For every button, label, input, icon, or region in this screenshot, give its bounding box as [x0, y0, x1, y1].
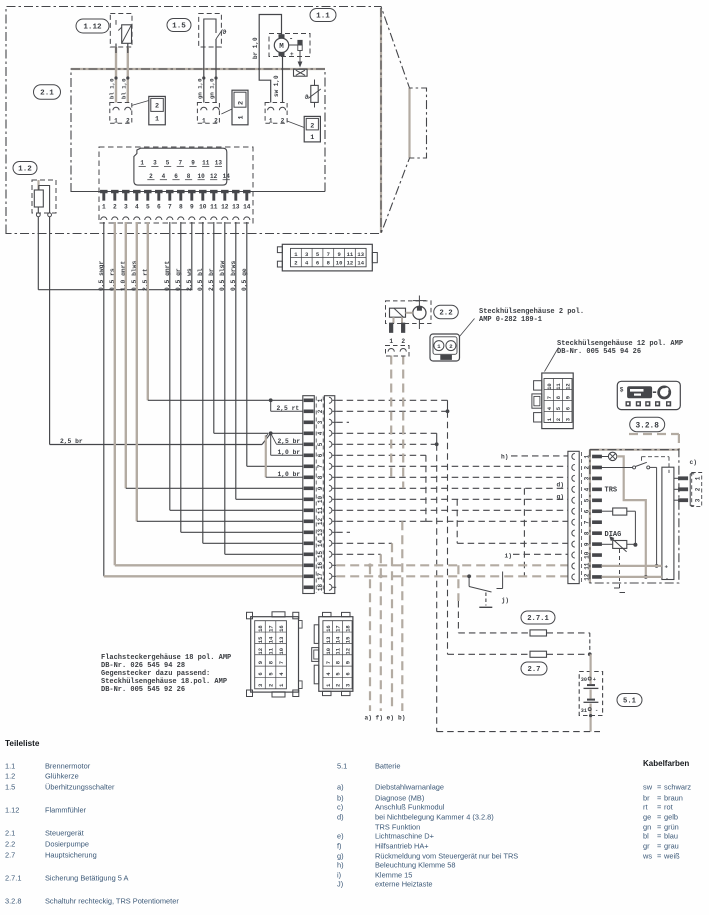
svg-text:2: 2: [694, 487, 701, 491]
dashed option box around switch: [642, 457, 670, 473]
c) connector bracket: [690, 473, 702, 507]
junction pot/resistor: [633, 543, 637, 547]
svg-text:Hauptsicherung: Hauptsicherung: [45, 851, 97, 860]
svg-text:+: +: [665, 564, 669, 571]
svg-text:12: 12: [347, 260, 354, 267]
svg-text:Steuergerät: Steuergerät: [45, 829, 84, 838]
junction pin4/pin5 ground: [435, 442, 439, 446]
svg-text:14: 14: [335, 636, 342, 643]
14-pol cell numbers: [291, 248, 367, 266]
net row 18pin-9 with d) branch: [336, 487, 568, 489]
svg-text:11: 11: [555, 383, 562, 390]
motor brush feed arrow to fuse: [299, 51, 301, 63]
wire from 14-pin pin 9 (2,5 ws): [191, 222, 193, 290]
svg-text:11: 11: [335, 647, 342, 654]
svg-text:gn 1,0: gn 1,0: [209, 78, 216, 99]
svg-text:rt: rt: [643, 803, 648, 812]
svg-text:1: 1: [269, 117, 273, 124]
svg-text:18: 18: [257, 625, 264, 632]
module pin numbers (rotated): [581, 452, 583, 583]
svg-text:Dosierpumpe: Dosierpumpe: [45, 840, 89, 849]
wire from 14-pin pin 10 (0,5 bl): [202, 222, 204, 543]
svg-text:1: 1: [202, 117, 206, 124]
svg-text:1.1: 1.1: [5, 762, 15, 771]
svg-text:12: 12: [344, 648, 351, 655]
timer 3.2.8 illustration: [617, 381, 680, 409]
svg-text:=: =: [657, 852, 661, 861]
svg-text:14: 14: [223, 173, 231, 180]
dosing pump 2.2: [386, 296, 432, 330]
svg-text:TRS Funktion: TRS Funktion: [375, 823, 420, 832]
svg-text:Steckhülsengehäuse 18.pol. AMP: Steckhülsengehäuse 18.pol. AMP: [101, 678, 227, 686]
text flat-pin housing: [101, 654, 231, 694]
label oval 1.2: [13, 162, 37, 175]
18-pol #2 cell numbers: [323, 621, 352, 689]
svg-text:h): h): [337, 861, 344, 870]
svg-text:1.12: 1.12: [83, 24, 102, 32]
label oval 5.1: [617, 694, 642, 707]
svg-text:7: 7: [278, 661, 285, 664]
svg-text:5: 5: [166, 160, 170, 167]
c) connector tabs: [674, 477, 688, 502]
svg-text:3: 3: [694, 498, 701, 502]
heater unit 1.1 outline: [6, 7, 427, 234]
label oval 1.5: [167, 19, 191, 32]
svg-text:c): c): [690, 459, 697, 466]
svg-text:12: 12: [210, 173, 218, 180]
socket contacts row: [101, 217, 250, 220]
svg-text:a): a): [365, 715, 372, 722]
svg-text:5: 5: [146, 204, 150, 211]
svg-text:9: 9: [191, 160, 195, 167]
svg-text:grau: grau: [664, 842, 679, 851]
svg-text:Flachsteckergehäuse 18 pol. AM: Flachsteckergehäuse 18 pol. AMP: [101, 654, 231, 662]
wire from glow plug terminal 1 down to pin9 rail: [37, 217, 39, 290]
svg-text:1: 1: [238, 115, 246, 119]
leader line: [460, 319, 475, 337]
svg-text:=: =: [657, 823, 661, 832]
svg-text:18: 18: [344, 625, 351, 632]
svg-text:13: 13: [325, 636, 332, 643]
svg-text:5: 5: [317, 442, 324, 446]
svg-text:9: 9: [317, 486, 324, 490]
svg-text:1: 1: [114, 117, 118, 124]
junction battery plus: [588, 652, 592, 656]
svg-text:6: 6: [565, 407, 572, 410]
18-pin connector X1 tab column: [303, 396, 315, 594]
net row 18pin-17 (gray): [336, 575, 568, 577]
svg-text:14: 14: [357, 260, 364, 267]
motor wire sw 1,0: [282, 56, 284, 103]
junction f): [379, 574, 383, 578]
svg-text:1: 1: [140, 160, 144, 167]
fuse 2.7 row: [448, 653, 531, 655]
svg-text:10: 10: [278, 648, 285, 655]
svg-text:17: 17: [268, 625, 275, 632]
svg-text:10: 10: [325, 648, 332, 655]
wire from 14-pin pin 1 (0,5 swgr): [103, 222, 105, 576]
label oval 2.7: [521, 662, 547, 675]
module plus/minus rail: [662, 467, 674, 582]
svg-text:6: 6: [344, 672, 351, 675]
svg-text:10: 10: [317, 496, 324, 504]
svg-text:Überhitzungsschalter: Überhitzungsschalter: [45, 783, 115, 792]
svg-text:15: 15: [257, 636, 264, 643]
svg-text:15: 15: [344, 636, 351, 643]
module box 3.2.8/TRS: [590, 450, 679, 583]
svg-text:Rückmeldung vom Steuergerät nu: Rückmeldung vom Steuergerät nur bei TRS: [375, 852, 518, 861]
temperature sensor NTC: [305, 80, 321, 108]
net row 18pin-3 stub: [336, 421, 349, 423]
svg-text:8: 8: [317, 475, 324, 479]
parts list right column: [337, 762, 518, 889]
svg-text:2: 2: [335, 684, 342, 687]
svg-text:7: 7: [178, 160, 182, 167]
svg-text:17: 17: [335, 625, 342, 632]
svg-text:-: -: [289, 36, 293, 44]
diagnose b) dashed exit: [614, 549, 625, 593]
gray feed pin 12 minus: [602, 576, 662, 578]
module socket column: [568, 451, 579, 583]
wire from 14-pin pin 3 (1,0 gnrt): [125, 222, 127, 488]
svg-text:2: 2: [126, 117, 130, 124]
fuse 2.7.1 row: [458, 632, 530, 634]
net row 18pin-16 (gray, +feed): [336, 564, 568, 566]
svg-text:2: 2: [281, 117, 285, 124]
svg-text:9: 9: [190, 204, 194, 211]
node: 2,5 br junction at 18-pin pin 4: [266, 431, 303, 477]
svg-text:e): e): [387, 715, 394, 722]
18-pin socket column: [324, 396, 334, 594]
net row 18pin-8 (pump ground): [336, 476, 568, 478]
svg-text:bl: bl: [643, 832, 649, 841]
wire from 14-pin pin 5 (2,5 rt): [147, 222, 149, 400]
resistor on module pin 6: [602, 508, 636, 545]
fuse 2.7: [530, 651, 547, 657]
wire from 14-pin pin 7 (0,5 gnrt): [169, 222, 171, 510]
svg-text:Beleuchtung Klemme 58: Beleuchtung Klemme 58: [375, 861, 456, 870]
svg-text:1.2: 1.2: [5, 772, 15, 781]
pump connector (2-pol): [386, 346, 410, 357]
svg-text:weiß: weiß: [663, 852, 680, 861]
svg-text:-: -: [595, 708, 598, 714]
svg-text:=: =: [657, 813, 661, 822]
18-pol socket housing illustration: [312, 612, 353, 695]
svg-text:Teileliste: Teileliste: [5, 739, 40, 748]
wire from 14-pin pin 8 (0,5 gr): [180, 222, 182, 532]
control unit 2.1 box: [71, 69, 325, 192]
net row 18pin-12 (b diagnose branch): [336, 520, 426, 522]
svg-text:14: 14: [268, 636, 275, 643]
wire branch to DIAG row: [456, 499, 458, 543]
svg-text:1: 1: [389, 338, 393, 345]
parts list left column: [5, 762, 179, 906]
svg-text:a): a): [337, 783, 344, 792]
svg-text:12: 12: [221, 204, 229, 211]
battery minus return row: [437, 731, 600, 733]
svg-text:9: 9: [257, 661, 264, 664]
svg-text:2,5 br: 2,5 br: [278, 438, 301, 445]
wire from 14-pin pin 11 (2,5 br): [213, 222, 215, 433]
svg-text:2.7: 2.7: [528, 666, 541, 674]
svg-text:1: 1: [694, 476, 701, 480]
svg-text:externe Heiztaste: externe Heiztaste: [375, 880, 433, 889]
svg-text:1: 1: [155, 116, 159, 124]
svg-text:12: 12: [317, 518, 324, 526]
svg-text:10: 10: [197, 173, 205, 180]
svg-text:6: 6: [157, 204, 161, 211]
14-pol connector illustration: [277, 244, 377, 271]
svg-text:ge: ge: [643, 813, 651, 822]
svg-text:10: 10: [336, 260, 343, 267]
svg-text:ϑ: ϑ: [223, 29, 227, 36]
svg-text:2,5 rt: 2,5 rt: [277, 405, 300, 412]
wire link row6 to row12: [425, 455, 427, 521]
14 connector tab pins: [100, 190, 250, 200]
svg-text:13: 13: [232, 204, 240, 211]
svg-text:12: 12: [257, 648, 264, 655]
svg-text:2.2: 2.2: [5, 840, 15, 849]
svg-text:2,5 br: 2,5 br: [60, 438, 83, 445]
svg-text:2: 2: [113, 204, 117, 211]
svg-text:Glühkerze: Glühkerze: [45, 772, 79, 781]
wire d) vertical: [523, 488, 525, 576]
net row 18pin-6: [336, 454, 426, 456]
svg-text:10: 10: [199, 204, 207, 211]
svg-text:=: =: [657, 832, 661, 841]
svg-text:=: =: [657, 803, 661, 812]
svg-text:i): i): [505, 552, 512, 559]
svg-text:30: 30: [581, 677, 587, 683]
wire b) Diagnose: [401, 521, 403, 711]
wire 1.5 pin2: [215, 39, 217, 103]
mate connector for 1.5: [221, 90, 248, 125]
motor wire br 1,0 (loop over top): [259, 15, 281, 103]
svg-text:Diagnose (MB): Diagnose (MB): [375, 794, 424, 803]
svg-text:i): i): [337, 871, 341, 880]
svg-text:Schaltuhr rechteckig, TRS Pote: Schaltuhr rechteckig, TRS Potentiometer: [45, 897, 179, 906]
wire e) Lichtmaschine D+: [391, 543, 393, 711]
net row 18pin-4: [336, 432, 437, 434]
svg-text:3: 3: [153, 160, 157, 167]
svg-text:5.1: 5.1: [623, 698, 637, 706]
junction a): [368, 563, 372, 567]
svg-text:Steckhülsengehäuse 2 pol.: Steckhülsengehäuse 2 pol.: [479, 308, 584, 316]
svg-text:ws: ws: [642, 852, 652, 861]
svg-text:DB-Nr. 005 545 92 26: DB-Nr. 005 545 92 26: [101, 686, 185, 694]
svg-text:Anschluß Funkmodul: Anschluß Funkmodul: [375, 803, 445, 812]
svg-text:c): c): [337, 803, 343, 812]
wire 1.12 pin1 (gray): [115, 47, 117, 103]
svg-text:1.5: 1.5: [5, 783, 15, 792]
svg-text:e): e): [337, 832, 344, 841]
switch j) externe Heiztaste: [469, 572, 503, 593]
wire from 14-pin pin 2 (0,5 rs): [114, 222, 116, 565]
node: 2,5 rt junction at 18-pin pins 1/2: [269, 398, 303, 411]
svg-text:1,0 br: 1,0 br: [278, 471, 301, 478]
svg-text:sw: sw: [643, 783, 653, 792]
label oval 2.2: [434, 305, 459, 319]
svg-text:2.1: 2.1: [5, 829, 15, 838]
svg-text:31: 31: [581, 708, 587, 714]
fuse 2.7.1: [530, 630, 547, 636]
18-pin pin numbers (rotated): [315, 397, 317, 594]
svg-text:Gegenstecker dazu passend:: Gegenstecker dazu passend:: [101, 670, 210, 678]
connector 1.5 (2-pol): [197, 103, 219, 124]
svg-text:11: 11: [347, 251, 354, 258]
svg-text:3.2.8: 3.2.8: [635, 422, 659, 430]
wire 1.12 pin2 (gray): [127, 47, 129, 103]
svg-text:Brennermotor: Brennermotor: [45, 762, 91, 771]
svg-text:-: -: [665, 575, 668, 582]
svg-text:2: 2: [310, 123, 314, 131]
wire from 14-pin pin 4 (0,5 blws): [136, 222, 138, 521]
svg-text:rot: rot: [664, 803, 673, 812]
svg-text:1.12: 1.12: [5, 806, 19, 815]
net row 18pin-2: [336, 410, 447, 412]
net row 18pin-10 with g): [336, 498, 568, 500]
svg-text:d): d): [557, 482, 564, 489]
svg-text:2: 2: [268, 684, 275, 687]
thermal fuse X on 2.1 edge: [294, 69, 308, 76]
svg-text:4: 4: [135, 204, 139, 211]
splice contacts on 1.5 wires: [202, 76, 205, 79]
svg-text:13: 13: [317, 529, 324, 537]
net row 18pin-7 to module switch: [336, 465, 568, 467]
svg-text:2.7.1: 2.7.1: [527, 615, 549, 623]
svg-text:2: 2: [155, 103, 159, 111]
svg-text:h): h): [501, 453, 508, 460]
wire a) Diebstahlwarnanlage: [369, 565, 371, 711]
svg-text:Steckhülsengehäuse 12 pol. AMP: Steckhülsengehäuse 12 pol. AMP: [557, 340, 683, 348]
svg-text:1,0 br: 1,0 br: [278, 449, 301, 456]
svg-text:14: 14: [243, 204, 251, 211]
svg-text:1.2: 1.2: [18, 166, 32, 174]
battery + feed down to fuse 2.7: [447, 411, 449, 654]
svg-text:J): J): [337, 880, 343, 889]
wire 2,5 br from glow plug terminal 2: [49, 217, 51, 445]
svg-text:16: 16: [317, 562, 324, 570]
svg-text:1.1: 1.1: [316, 13, 330, 21]
dosing pump lead 1: [390, 356, 392, 478]
plate pin numbers 1..14: [139, 160, 231, 180]
svg-text:braun: braun: [664, 794, 683, 803]
svg-text:2.1: 2.1: [40, 90, 54, 98]
labels a) f) e) b): [365, 715, 406, 722]
svg-text:11: 11: [202, 160, 210, 167]
svg-text:b): b): [337, 794, 344, 803]
svg-text:DB-Nr. 026 545 94 28: DB-Nr. 026 545 94 28: [101, 662, 185, 670]
lamp (Beleuchtung): [602, 452, 617, 460]
svg-text:6: 6: [257, 672, 264, 675]
junction pin1/pin2 feed: [446, 409, 450, 413]
wire f) Hilfsantrieb: [380, 554, 382, 711]
svg-text:=: =: [657, 794, 661, 803]
svg-text:18: 18: [317, 584, 324, 592]
svg-text:b): b): [398, 715, 405, 722]
gray boundary segment above module: [629, 433, 679, 435]
svg-text:4: 4: [162, 173, 166, 180]
svg-text:Diebstahlwarnanlage: Diebstahlwarnanlage: [375, 783, 444, 792]
wire from 14-pin pin 14 (0,5 ge): [246, 222, 248, 466]
svg-text:br: br: [643, 794, 650, 803]
connector label plate: [134, 148, 227, 185]
svg-text:2: 2: [149, 173, 153, 180]
svg-text:1: 1: [310, 134, 314, 142]
svg-text:bei Nichtbelegung Kammer 4 (3.: bei Nichtbelegung Kammer 4 (3.2.8): [375, 813, 494, 822]
svg-text:4: 4: [317, 431, 324, 435]
connector 1.12 (2-pol): [110, 103, 132, 124]
svg-text:16: 16: [325, 625, 332, 632]
svg-text:f): f): [337, 842, 342, 851]
svg-text:3: 3: [124, 204, 128, 211]
battery 5.1: [579, 654, 602, 731]
svg-text:8: 8: [179, 204, 183, 211]
dosing pump lead 2: [402, 356, 404, 489]
2.1 box bottom edge through connector: [71, 191, 325, 193]
wire from 14-pin pin 13 (0,5 brws): [235, 222, 237, 499]
12-pol connector illustration: [532, 373, 573, 429]
svg-text:2.7.1: 2.7.1: [5, 874, 21, 883]
svg-text:Kabelfarben: Kabelfarben: [643, 759, 689, 768]
svg-text:2.7: 2.7: [5, 851, 15, 860]
svg-text:Hilfsantrieb HA+: Hilfsantrieb HA+: [375, 842, 429, 851]
ground symbol: [479, 593, 492, 608]
pump terminal tabs: [389, 323, 393, 333]
label oval 2.7.1: [521, 611, 555, 624]
svg-text:11: 11: [317, 507, 324, 515]
svg-text:2: 2: [238, 101, 246, 105]
svg-text:7: 7: [317, 464, 324, 468]
cable color list: [642, 783, 691, 861]
svg-text:15: 15: [317, 551, 324, 559]
wire from 14-pin pin 12 (0,5 blsw): [224, 222, 226, 554]
svg-text:DB-Nr. 005 545 94 26: DB-Nr. 005 545 94 26: [557, 348, 641, 356]
svg-text:+: +: [593, 677, 596, 683]
svg-text:+: +: [290, 51, 294, 58]
svg-text:5.1: 5.1: [337, 762, 347, 771]
12-pol cell numbers: [544, 379, 572, 423]
potentiometer DIAG on pin 9: [602, 536, 636, 552]
2-pol housing illustration: [430, 334, 460, 361]
svg-text:3: 3: [317, 420, 324, 424]
net row 18pin-11: [336, 509, 568, 511]
svg-text:Lichtmaschine D+: Lichtmaschine D+: [375, 832, 434, 841]
wire 1.5 pin1: [203, 40, 205, 103]
branch to fuse 2.7.1: [457, 565, 459, 601]
svg-text:gn: gn: [643, 823, 651, 832]
junction j) switch: [467, 574, 471, 578]
svg-text:TRS: TRS: [605, 487, 618, 495]
switch on module pin 2: [602, 462, 657, 469]
svg-text:2: 2: [214, 117, 218, 124]
connector motor (2-pol): [265, 103, 287, 124]
svg-text:Klemme 15: Klemme 15: [375, 871, 412, 880]
svg-text:9: 9: [337, 251, 340, 258]
svg-text:$: $: [620, 387, 624, 394]
net row 18pin-15 Klemme15 with i): [336, 553, 381, 555]
splice contacts on 1.12 wires: [114, 76, 117, 79]
svg-text:=: =: [657, 783, 661, 792]
label oval 2.1: [34, 85, 61, 100]
net row 18pin-5: [336, 443, 437, 445]
svg-text:bl 1,0: bl 1,0: [120, 78, 127, 99]
svg-text:6: 6: [174, 173, 178, 180]
svg-text:2: 2: [555, 418, 562, 421]
svg-text:Flammfühler: Flammfühler: [45, 806, 87, 815]
svg-text:1: 1: [317, 398, 324, 402]
svg-text:d): d): [337, 813, 344, 822]
